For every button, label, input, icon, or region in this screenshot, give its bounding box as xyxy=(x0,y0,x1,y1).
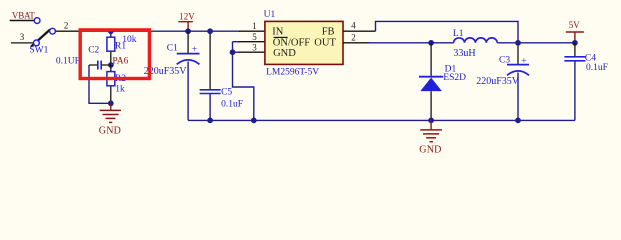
svg-text:GND: GND xyxy=(99,125,121,136)
svg-text:ON/OFF: ON/OFF xyxy=(273,37,311,48)
junction dot C3 bottom xyxy=(515,118,521,124)
wire C1 bottom to rail xyxy=(187,62,189,121)
junction dot C5 top xyxy=(207,28,213,34)
wire C2 left leg xyxy=(89,65,111,103)
svg-text:5V: 5V xyxy=(569,20,581,30)
wire bottom ground rail xyxy=(188,119,575,121)
svg-text:2: 2 xyxy=(64,21,69,31)
svg-text:U1: U1 xyxy=(264,10,276,20)
node PA6 junction dot xyxy=(108,62,114,68)
svg-text:VBAT: VBAT xyxy=(12,10,35,20)
svg-text:C3: C3 xyxy=(499,55,510,65)
junction dot R2 bottom xyxy=(108,100,114,106)
svg-text:C4: C4 xyxy=(585,54,596,64)
svg-text:3: 3 xyxy=(252,43,257,53)
svg-text:4: 4 xyxy=(351,21,356,31)
SW1 terminal circle pin2 xyxy=(50,28,56,34)
capacitor C2 xyxy=(89,64,111,66)
SW1 terminal circle pin3 xyxy=(34,40,40,46)
junction dot pin3/pin5 tie xyxy=(230,49,236,55)
wire top net to U1 pin1 xyxy=(79,30,240,32)
svg-text:ES2D: ES2D xyxy=(443,73,466,83)
wire FB loop xyxy=(343,30,376,32)
wire U1 pins to ground rail xyxy=(233,42,254,121)
svg-text:LM2596T-5V: LM2596T-5V xyxy=(266,67,319,77)
IC U1 LM2596T-5V body xyxy=(265,21,343,64)
svg-text:C1: C1 xyxy=(167,43,178,53)
svg-text:1: 1 xyxy=(252,21,257,31)
U1 ON overline xyxy=(274,36,288,38)
resistor R1 xyxy=(110,31,112,65)
svg-text:3: 3 xyxy=(20,32,25,42)
ground GND1 xyxy=(100,103,121,122)
svg-text:IN: IN xyxy=(272,26,283,37)
junction dot C5 bottom xyxy=(207,118,213,124)
svg-text:GND: GND xyxy=(419,145,441,156)
junction dot R1 top xyxy=(108,28,114,34)
resistor R2 xyxy=(110,65,112,103)
switch SW1 pin 3 wire xyxy=(11,42,33,44)
wire U1 pin5 xyxy=(233,41,241,43)
svg-text:+: + xyxy=(521,56,526,66)
svg-text:0.1uF: 0.1uF xyxy=(221,99,243,109)
capacitor C1 xyxy=(187,31,189,53)
svg-text:0.1UF: 0.1UF xyxy=(56,56,80,66)
ground GND2 xyxy=(420,120,442,141)
wire U1 pin3 xyxy=(233,51,241,53)
diode D1 xyxy=(430,43,432,77)
svg-text:33uH: 33uH xyxy=(453,48,475,59)
svg-text:12V: 12V xyxy=(179,12,195,22)
svg-text:0.1uF: 0.1uF xyxy=(586,63,608,73)
svg-text:+: + xyxy=(192,45,197,55)
SW1 lever xyxy=(31,30,50,47)
svg-text:220uF35V: 220uF35V xyxy=(476,76,520,87)
svg-text:5: 5 xyxy=(252,32,257,42)
junction dot C3/FB xyxy=(515,40,521,46)
svg-text:1k: 1k xyxy=(115,85,125,95)
svg-text:2: 2 xyxy=(351,32,356,42)
wire SW1 pin2 stub xyxy=(55,30,80,32)
junction dot D1 bottom xyxy=(428,118,434,124)
inductor L1 xyxy=(454,38,498,43)
capacitor C4 xyxy=(574,43,576,57)
svg-text:PA6: PA6 xyxy=(112,57,128,67)
svg-text:FB: FB xyxy=(322,26,335,37)
wire OUT net xyxy=(343,42,369,44)
svg-text:L1: L1 xyxy=(453,29,464,39)
svg-text:SW1: SW1 xyxy=(29,46,48,56)
svg-text:C2: C2 xyxy=(88,45,99,55)
junction dot 5V/C4 xyxy=(572,40,578,46)
junction dot 12V/C1 xyxy=(185,28,191,34)
red highlight box xyxy=(80,30,149,79)
capacitor C5 xyxy=(209,31,211,89)
junction dot OUT/D1 xyxy=(428,40,434,46)
svg-text:GND: GND xyxy=(273,48,296,59)
svg-text:10k: 10k xyxy=(122,35,137,45)
SW1 terminal circle pin1 xyxy=(34,18,40,24)
junction dot rail/IC ground xyxy=(251,118,257,124)
capacitor C3 xyxy=(517,43,519,65)
svg-text:C5: C5 xyxy=(221,88,232,98)
svg-text:OUT: OUT xyxy=(314,37,336,48)
